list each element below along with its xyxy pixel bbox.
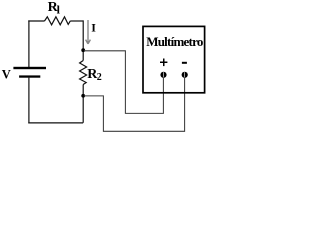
plus terminal dot [160,72,166,78]
wire R2 to node B [82,85,84,123]
svg-text:l: l [57,3,61,17]
wire battery to bottom [28,78,30,124]
battery V top plate [13,67,46,69]
minus terminal dot [182,72,188,78]
wire right vertical from corner to R2 [82,20,84,60]
svg-text:I: I [91,21,96,35]
svg-text:Multímetro: Multímetro [146,34,203,49]
wire node B to multimeter minus terminal [84,77,185,131]
battery V bottom plate [19,75,40,77]
plus terminal label [160,62,167,64]
wire from R1 to corner [70,20,83,22]
svg-text:2: 2 [97,72,102,83]
node A junction dot [81,48,85,52]
wire bottom [28,122,83,124]
wire top from battery to R1 [28,20,44,22]
minus terminal label [182,62,187,64]
resistor R1 [45,17,71,25]
node B junction dot [81,94,85,98]
resistor R2 [80,61,87,85]
current arrow I [86,20,91,44]
wire left vertical (battery top) [28,20,30,67]
multimeter box U1 [143,26,205,92]
wire node A to multimeter plus terminal [84,51,163,114]
svg-text:V: V [2,68,11,82]
